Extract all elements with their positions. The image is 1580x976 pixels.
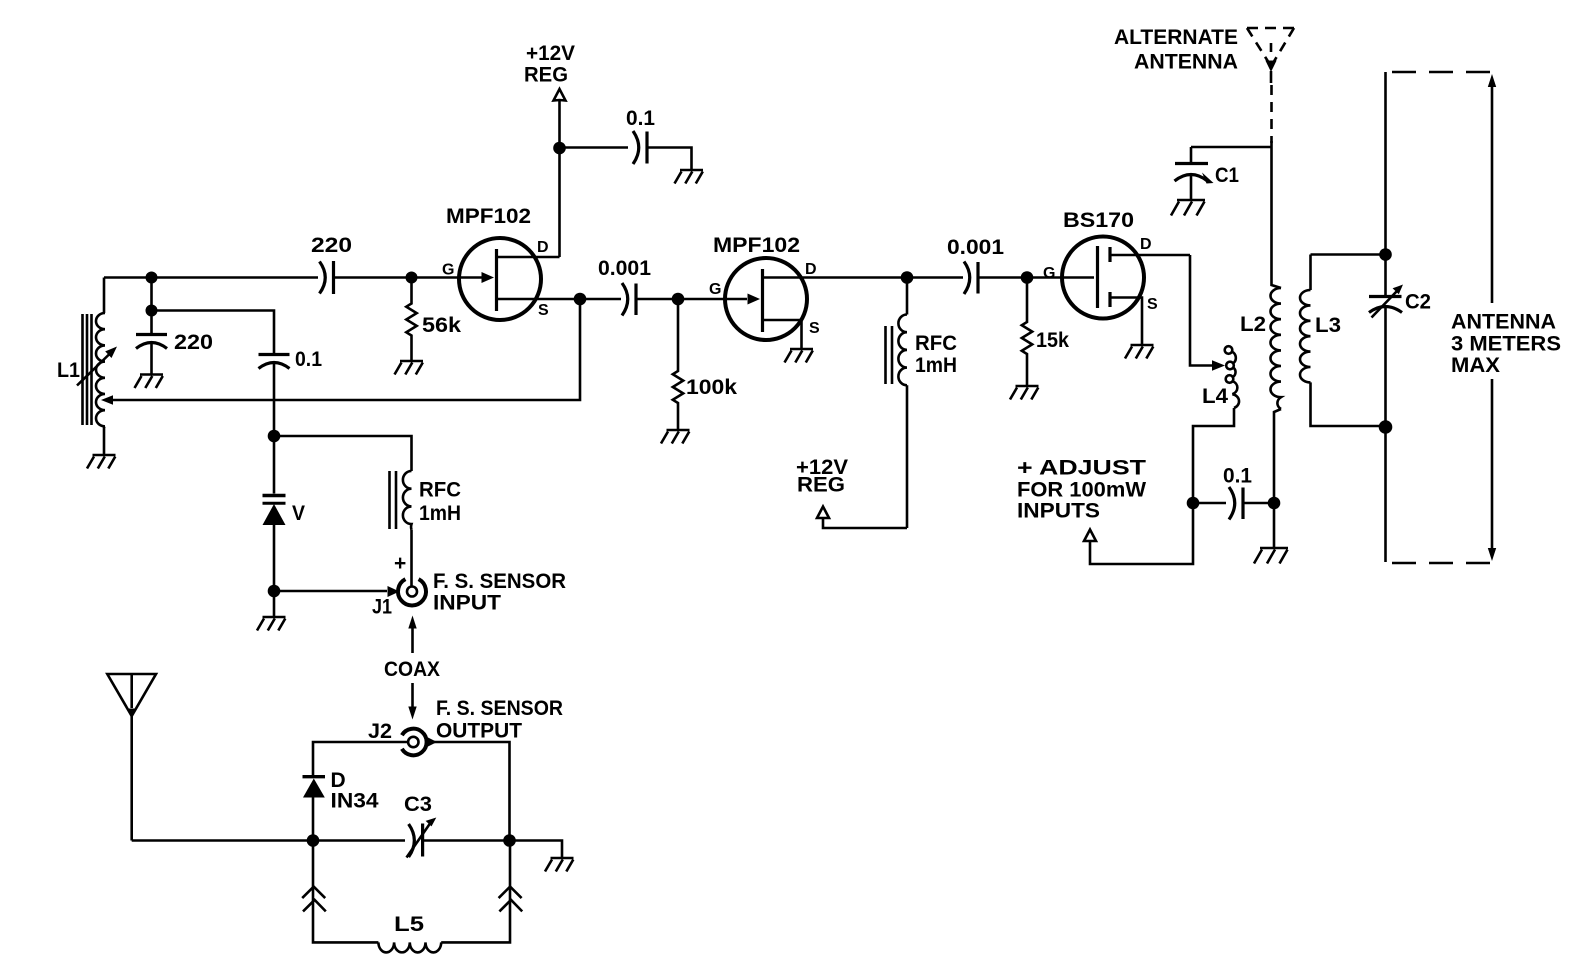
svg-text:15k: 15k [1036,329,1069,352]
arrowhead: feedback tap into L1 [101,395,113,404]
winding arrows (L5 coupling) right [499,887,523,912]
node: junction dot L2 bottom [1268,497,1281,510]
svg-text:220: 220 [311,234,352,257]
dashed bottom of antenna extent [1392,562,1497,565]
resistor 56k [406,278,416,362]
diode D 1N34 [303,775,326,841]
ground for 0.1 bypass [675,170,704,184]
wire: bypass cap to ground [647,148,692,171]
svg-text:S: S [538,302,549,319]
svg-text:L5: L5 [394,913,424,936]
connector J1 (phono jack) [398,579,426,605]
wire: +12V node to 0.1 bypass cap [560,146,629,149]
core bars of RFC2 [886,326,893,384]
wire: 0.001 #2 to Q3 gate [978,276,1094,279]
wire: feedback from Q1 source down and left to L1 tap [105,299,580,400]
arrowhead: wire into J1 shell [388,586,400,597]
wire: loop left side down [313,841,378,943]
svg-text:J1: J1 [372,596,392,619]
svg-text:FOR 100mW: FOR 100mW [1017,479,1146,502]
node: junction dot antenna line top of C2 [1379,248,1392,261]
capacitor 0.001 (interstage coupling) [622,283,636,316]
node: junction dot 0.1 left [1187,497,1200,510]
svg-text:L2: L2 [1240,313,1266,336]
svg-text:D: D [1140,236,1152,253]
svg-text:56k: 56k [422,314,461,337]
node: junction dot varactor branch [268,430,281,443]
node: junction dot Q2 drain / RFC2 [901,271,914,284]
inductor L2 (tank) [1271,147,1282,503]
svg-text:C1: C1 [1215,164,1239,187]
alternate antenna (dashed) [1247,28,1294,147]
dashed top of antenna extent [1392,71,1497,74]
svg-text:D: D [805,261,817,278]
svg-text:+12V: +12V [526,42,575,65]
ground right of C3 [545,858,574,872]
svg-text:IN34: IN34 [331,790,379,813]
capacitor C2 (antenna tuning, variable) [1369,285,1403,318]
capacitor 0.1 (varactor feed) [259,355,290,437]
capacitor 220 (shunt on L1 tap) [136,311,167,375]
svg-text:100k: 100k [686,376,737,399]
wire: C3 to ground stub [423,841,562,859]
node: junction dot right of C3 [503,834,516,847]
svg-text:220: 220 [174,331,213,354]
wire: RFC2 bottom to +12V REG arrow [823,518,907,528]
inductor L1 (variable, slug tuned) [96,278,105,456]
wire: dot down to ground [273,591,276,617]
arrowhead: tap into L4 [1212,360,1225,370]
dimension line (3 meters) [1488,74,1496,561]
ground under L1 [87,455,116,469]
wire: C1 top to alternate antenna line [1191,146,1272,149]
svg-text:0.001: 0.001 [598,257,651,280]
ground under 100k [661,430,690,444]
coax link arrow up to J1 [408,616,416,654]
svg-text:S: S [1147,296,1158,313]
svg-text:INPUT: INPUT [433,592,501,615]
svg-text:D: D [537,239,549,256]
inductor L4 (adjustable tap link) [1193,346,1239,503]
wire: Q3 drain down to L4 tap arrow [1190,255,1212,366]
connector J2 (phono jack) [402,729,427,756]
svg-text:L1: L1 [57,359,80,382]
svg-text:RFC: RFC [419,479,461,502]
svg-text:COAX: COAX [384,658,440,681]
wire: 0.001 to Q2 gate [636,298,747,301]
inductor L3 (antenna coupling) [1300,255,1386,427]
wire: loop right side [441,841,510,943]
wire: dot to RFC1 top [274,436,412,466]
svg-text:C3: C3 [404,793,432,816]
svg-text:MPF102: MPF102 [446,205,531,228]
capacitor C1 (trimmer to alternate antenna) [1175,147,1214,200]
ground under L2 [1254,548,1288,564]
node: junction dot Q3 gate / 15k [1021,271,1034,284]
node: junction dot varactor / J1 shield [268,585,281,598]
inductor RFC 1mH (sensor feed choke) [403,466,412,586]
capacitor C3 (variable) [407,818,437,858]
capacitor 0.001 (output coupling) [964,262,978,295]
core bars of RFC1 [390,471,397,529]
svg-text:1mH: 1mH [419,502,461,525]
wire: Q1 drain up to +12V node [558,100,561,257]
antenna (whip, sensor) [107,674,156,841]
svg-text:G: G [1043,265,1055,282]
wire: Q1 source dot to 0.001 coupling [580,298,621,301]
svg-text:REG: REG [524,64,568,87]
wire: antenna to C3 [132,839,405,842]
transistor Q3 BS170 (MOSFET) [1062,237,1190,346]
capacitor 0.1 (output link) [1229,487,1243,520]
node: junction dot left of C3 [307,834,320,847]
svg-text:OUTPUT: OUTPUT [436,720,522,743]
wire: antenna main vertical upper [1384,72,1387,297]
svg-text:G: G [442,262,454,279]
wire: J2 right to output loop [434,742,510,841]
power arrow +12V REG (stage 2 supply) [817,507,829,519]
svg-text:+: + [394,552,406,575]
resistor 100k [673,299,683,430]
svg-text:0.001: 0.001 [947,236,1004,259]
svg-text:ANTENNA: ANTENNA [1134,51,1238,74]
wire: 220 cap to JFET1 gate [334,276,482,279]
wire: shield wire from varactor dot to J1 [274,590,387,593]
svg-text:+ ADJUST: + ADJUST [1017,457,1146,480]
svg-text:INPUTS: INPUTS [1017,500,1100,523]
wire: Q2 drain to 0.001 #2 [907,276,963,279]
varactor diode V [263,436,286,591]
svg-text:0.1: 0.1 [1223,465,1252,488]
wire: 0.1 to L2 cold end [1243,502,1274,505]
svg-text:1mH: 1mH [915,354,957,377]
arrowhead: J2 shell to right wire [427,737,438,748]
node: junction dot at L1 top / 220 tap [146,272,158,284]
input arrow for 100mW drive [1084,503,1193,564]
transistor Q1 MPF102 (JFET) [459,238,580,320]
svg-text:0.1: 0.1 [295,348,322,371]
inductor RFC 1mH (drain choke) [898,278,907,529]
node: junction dot to 0.1 branch [146,305,158,317]
ground under 56k [395,361,424,375]
wire: down to second tap dot [150,278,153,311]
arrow of L1 (variable) [77,347,117,386]
ground under C1 [1171,200,1205,216]
resistor 15k [1022,278,1032,387]
ground under 15k [1010,386,1039,400]
inductor L5 [378,942,441,952]
svg-text:ALTERNATE: ALTERNATE [1114,26,1238,49]
svg-text:ANTENNA: ANTENNA [1451,311,1556,334]
node: junction dot Q1 source [574,293,587,306]
svg-text:F. S. SENSOR: F. S. SENSOR [436,697,563,720]
wire: tap dot to 0.1 shunt cap branch [152,311,275,355]
wire: J2 center to left loop top [313,742,408,775]
svg-text:MPF102: MPF102 [713,234,800,257]
svg-text:C2: C2 [1405,291,1431,314]
winding arrows (L5 coupling) left [302,887,326,912]
transistor Q2 MPF102 (JFET) [725,258,907,349]
ground under Q2 source [785,349,814,363]
wire: L2 bottom dot to ground [1273,503,1276,548]
wire: L3 top to antenna line [1311,253,1386,256]
svg-text:S: S [809,320,820,337]
capacitor 0.1 (supply bypass) [633,131,647,164]
svg-text:RFC: RFC [915,332,957,355]
svg-text:MAX: MAX [1451,354,1500,377]
ground under varactor [257,617,286,631]
capacitor 220 (series coupling) [320,261,334,294]
svg-text:F. S. SENSOR: F. S. SENSOR [433,570,566,593]
svg-text:L4: L4 [1202,385,1228,408]
svg-text:G: G [709,281,721,298]
svg-text:REG: REG [797,474,845,497]
svg-text:3 METERS: 3 METERS [1451,333,1561,356]
wire: dot to 0.1 output cap [1193,502,1226,505]
coax link arrow down to J2 [408,683,416,720]
power arrow +12V REG (Q1 drain supply) [554,89,566,101]
node: junction dot gate JFET1 / 56k [406,272,418,284]
ground under 220 shunt cap [135,375,164,389]
svg-text:BS170: BS170 [1063,209,1134,232]
svg-text:L3: L3 [1315,314,1341,337]
core bars of L1 [83,314,92,425]
ground under Q3 source [1125,345,1154,359]
node: junction dot +12V / bypass [553,142,566,155]
svg-text:0.1: 0.1 [626,107,655,130]
wire: main top line from L1 to 220 coupling cap [104,276,318,279]
svg-text:V: V [292,502,305,525]
svg-text:J2: J2 [368,720,392,743]
node: junction dot Q2 gate / 100k [672,293,685,306]
wire: antenna main vertical lower [1384,308,1387,562]
node: junction dot antenna line bottom [1379,420,1393,434]
